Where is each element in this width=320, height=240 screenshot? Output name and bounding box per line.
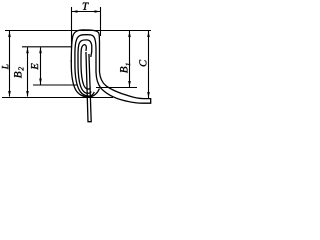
dimension line B1	[129, 31, 131, 87]
label L	[2, 64, 8, 69]
arrowhead B1 bottom	[128, 81, 131, 87]
spring outer wrap outer edge bottom sweep	[71, 60, 99, 97]
arrowhead E top	[39, 47, 42, 53]
label T	[83, 3, 89, 10]
label E	[31, 63, 38, 69]
extension line B1 bottom reference	[96, 87, 137, 89]
extension line top reference for L B1 C	[5, 30, 151, 32]
label B2	[14, 67, 23, 78]
extension line bottom reference for L B2	[2, 97, 113, 99]
arrowhead L top	[8, 31, 11, 37]
arrowhead B2 bottom	[26, 91, 29, 97]
arrowhead T right	[95, 10, 101, 13]
extension line E bottom reference	[33, 84, 77, 86]
arrowhead C bottom	[147, 92, 150, 98]
dimension line T	[72, 11, 101, 13]
arrowhead B1 top	[128, 31, 131, 37]
extension line T left	[71, 7, 73, 47]
arrowhead L bottom	[8, 91, 11, 97]
extension line T right	[100, 7, 102, 36]
spring wrap2 outer edge	[78, 40, 92, 93]
label C	[139, 60, 146, 67]
arrowhead T left	[72, 10, 78, 13]
spring inner tail strip with bottom cap	[86, 52, 91, 122]
dimension line B2	[27, 47, 29, 96]
extension line top reference for B2 E	[22, 46, 72, 48]
dimension line E	[40, 47, 42, 84]
arrowhead C top	[147, 31, 150, 37]
dimension line L	[9, 31, 11, 97]
spring outer wrap outer edge with tail upper edge, end cap, tail lower edge, wrap1 inner edge and its bottom curl	[71, 30, 150, 103]
spring wrap2 inner edge	[81, 45, 91, 89]
arrowhead B2 top	[26, 47, 29, 53]
dimension line C	[148, 31, 150, 98]
label B1	[120, 63, 130, 73]
arrowhead E bottom	[39, 79, 42, 85]
